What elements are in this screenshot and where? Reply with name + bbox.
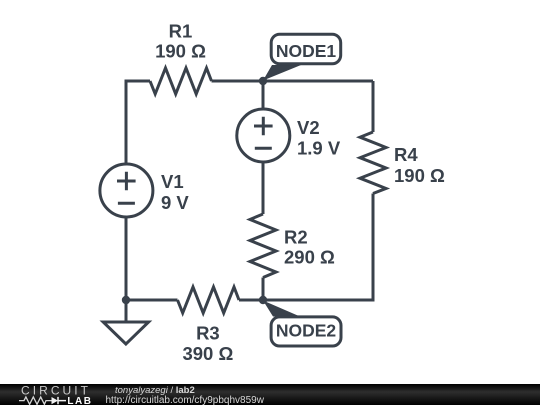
wire R4 bottom to bottom-right corner to node B xyxy=(263,194,373,301)
svg-text:NODE1: NODE1 xyxy=(276,41,337,61)
svg-text:190 Ω: 190 Ω xyxy=(155,41,206,62)
label V1 value xyxy=(161,171,189,213)
wire R2 bottom to node B xyxy=(262,278,265,301)
wire R3 to node B xyxy=(239,299,263,302)
label V2 value xyxy=(297,117,341,158)
credit line 1 xyxy=(115,386,195,396)
wire V2 bottom to R2 xyxy=(262,162,265,214)
resistor R3 xyxy=(178,287,240,313)
resistor R1 xyxy=(150,68,212,94)
resistor R2 xyxy=(250,214,276,278)
wire V1 bottom to ground junction xyxy=(125,217,128,300)
svg-text:R4: R4 xyxy=(394,144,418,165)
credit line 2 xyxy=(106,396,264,405)
wire top-left from V1 top to R1 xyxy=(126,81,150,164)
label R4 value xyxy=(394,144,445,186)
label R2 value xyxy=(284,226,335,267)
svg-text:1.9 V: 1.9 V xyxy=(297,137,341,158)
node A junction dot xyxy=(259,77,267,85)
label R3 value xyxy=(182,323,233,365)
svg-text:R3: R3 xyxy=(196,323,220,344)
wire node A down to V2 xyxy=(262,81,265,109)
voltage source V1 xyxy=(100,164,153,217)
svg-text:190 Ω: 190 Ω xyxy=(394,165,445,186)
resistor R4 xyxy=(360,132,386,194)
svg-text:290 Ω: 290 Ω xyxy=(284,246,335,267)
voltage source V2 xyxy=(237,109,290,162)
label R1 value xyxy=(155,21,206,62)
node label NODE1 xyxy=(263,34,341,80)
wire right side R4 top xyxy=(372,81,375,132)
ground xyxy=(103,300,148,344)
svg-text:NODE2: NODE2 xyxy=(276,320,337,340)
node B junction dot NODE2 xyxy=(259,296,267,304)
svg-text:V1: V1 xyxy=(161,171,184,192)
wire R1 to node A junction to top-right corner xyxy=(212,80,374,83)
svg-text:R2: R2 xyxy=(284,226,308,247)
svg-text:390 Ω: 390 Ω xyxy=(182,343,233,364)
ground junction dot xyxy=(122,296,130,304)
footer bar xyxy=(0,384,540,405)
node label NODE2 xyxy=(263,301,341,347)
svg-text:R1: R1 xyxy=(169,21,193,42)
wire bottom from ground junction to R3 xyxy=(126,299,178,302)
circuitlab logo xyxy=(0,384,100,405)
svg-text:9 V: 9 V xyxy=(161,192,189,213)
svg-text:V2: V2 xyxy=(297,117,320,138)
svg-text:LAB: LAB xyxy=(67,396,92,405)
